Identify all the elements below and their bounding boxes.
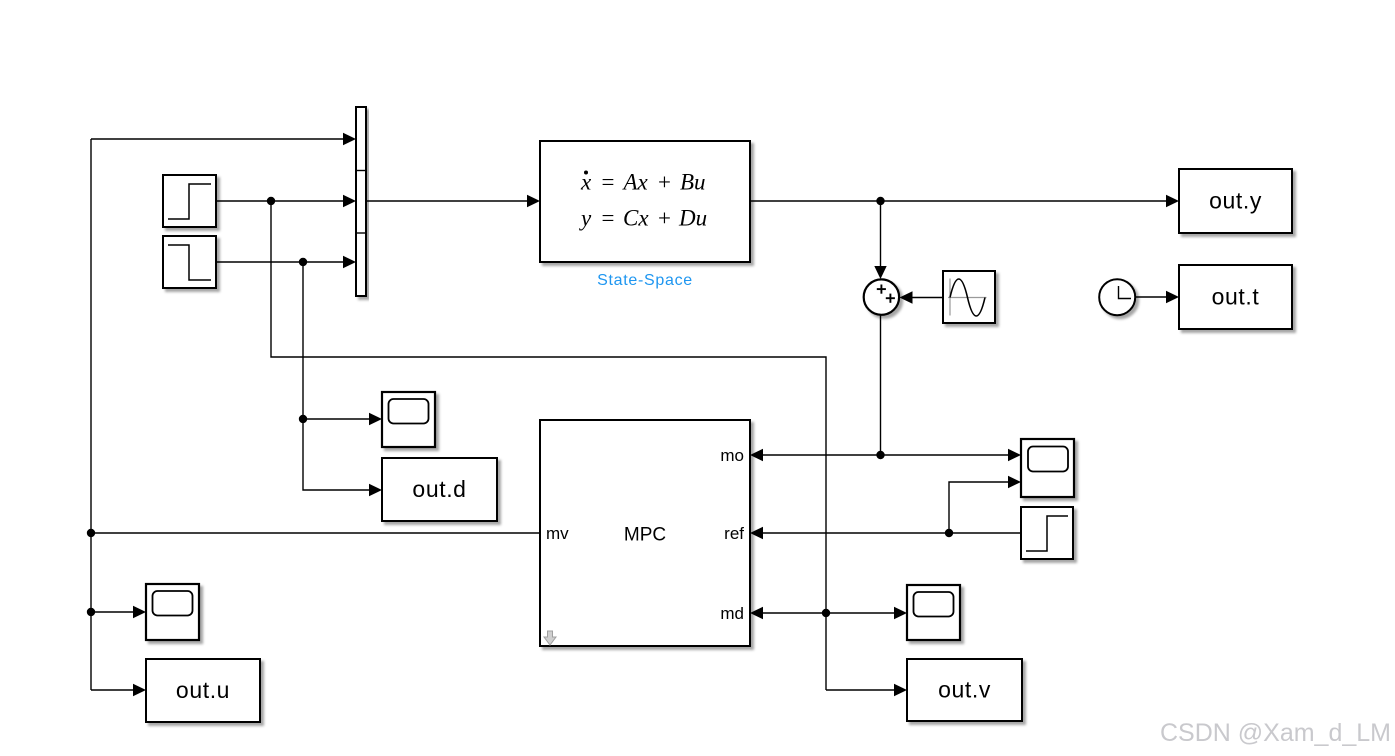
block out.v bbox=[907, 659, 1022, 721]
wire branch md to out.v bbox=[826, 689, 894, 691]
junction at (91,533) bbox=[87, 529, 95, 537]
wire mo to scope Scope-mo input 1 bbox=[881, 454, 1009, 456]
wire into MPC md port bbox=[763, 612, 826, 614]
sum plus sign top bbox=[877, 285, 886, 294]
wire md trunk: from (271,201) down, right at y=357, down x=826 to y=690 bbox=[271, 201, 826, 690]
junction at (949,533) bbox=[945, 529, 953, 537]
svg-text:out.t: out.t bbox=[1212, 284, 1260, 310]
svg-text:out.v: out.v bbox=[938, 677, 991, 703]
block scope Scope-d bbox=[382, 392, 435, 447]
block scope Scope-mo (two inputs) bbox=[1021, 439, 1074, 497]
junction at (880,201) bbox=[876, 197, 884, 205]
wire branch to scope Scope-u bbox=[91, 611, 133, 613]
wire branch md to scope Scope-md bbox=[826, 612, 894, 614]
block scope Scope-u bbox=[146, 584, 199, 640]
svg-text:State-Space: State-Space bbox=[597, 272, 693, 289]
block out.y bbox=[1179, 169, 1292, 233]
sum plus sign right bbox=[886, 294, 895, 303]
svg-text:ref: ref bbox=[724, 524, 744, 543]
block step S1 (step up) bbox=[163, 175, 216, 227]
block step S2 (step down) bbox=[163, 236, 216, 288]
wire mo into MPC mo port bbox=[763, 454, 881, 456]
svg-text:mv: mv bbox=[546, 524, 569, 543]
svg-text:out.y: out.y bbox=[1209, 188, 1262, 214]
junction at (91,612) bbox=[87, 608, 95, 616]
block step S3 (mirrored, step up) bbox=[1021, 507, 1073, 559]
block out.t bbox=[1179, 265, 1292, 329]
svg-text:MPC: MPC bbox=[624, 525, 666, 546]
block State-Space bbox=[540, 141, 750, 262]
wire mv feedback: MPC mv output left to x=91 bbox=[91, 532, 540, 534]
wire ref branch up to scope Scope-mo input 2 bbox=[949, 482, 1008, 533]
block out.d bbox=[382, 458, 497, 521]
block sine wave bbox=[943, 271, 995, 323]
wire State-Space output to out.y bbox=[750, 200, 1166, 202]
wire clock to out.t bbox=[1135, 296, 1166, 298]
wire sine wave to sum right bbox=[912, 297, 943, 299]
block MPC bbox=[540, 420, 750, 646]
wire branch to out.u bbox=[91, 689, 133, 691]
svg-text:CSDN @Xam_d_LM: CSDN @Xam_d_LM bbox=[1160, 719, 1391, 747]
junction at (826,613) bbox=[822, 609, 830, 617]
junction at (271,201) bbox=[267, 197, 275, 205]
svg-text:out.u: out.u bbox=[176, 677, 230, 703]
wire left vertical trunk x=91 from y=139 to y=690 bbox=[90, 139, 92, 690]
wire sum output down to mo line bbox=[880, 315, 882, 455]
junction at (303,262) bbox=[299, 258, 307, 266]
wire ud trunk: from (303,262) down x=303 to y=490 bbox=[303, 262, 369, 490]
wire step2 output to mux input 3 bbox=[216, 261, 344, 263]
svg-text:md: md bbox=[720, 604, 744, 623]
block mux bbox=[356, 107, 366, 296]
block out.u bbox=[146, 659, 260, 722]
wire down into sum top bbox=[880, 201, 882, 266]
wire step1 output to mux input 2 bbox=[216, 200, 344, 202]
wire branch to scope Scope-d bbox=[303, 418, 369, 420]
block sum bbox=[864, 279, 899, 314]
junction at (303,419) bbox=[299, 415, 307, 423]
svg-text:out.d: out.d bbox=[412, 476, 466, 502]
wire ref: from step3 left to MPC ref port bbox=[763, 532, 1021, 534]
block clock bbox=[1099, 279, 1135, 315]
svg-text:mo: mo bbox=[720, 446, 744, 465]
wire top feedback into mux input 1 bbox=[91, 138, 344, 140]
junction at (880,455) bbox=[876, 451, 884, 459]
block scope Scope-md bbox=[907, 585, 960, 640]
MPC gray drop arrow badge bbox=[544, 631, 556, 645]
wire mux output to State-Space input bbox=[366, 200, 527, 202]
